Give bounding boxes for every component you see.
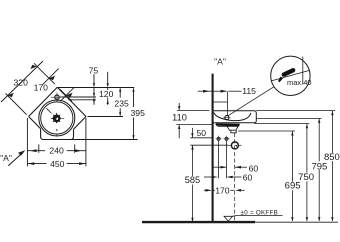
120 dim vertical [107, 72, 109, 86]
waste circle side ticks [228, 144, 231, 146]
235 dim vertical [119, 89, 121, 98]
svg-text:120: 120 [99, 89, 114, 99]
240 dim line [27, 150, 45, 152]
left ext: waste level 585 [190, 144, 228, 146]
tap hole (front) [225, 116, 229, 120]
320 dimension line [1, 61, 43, 102]
svg-text:320: 320 [14, 78, 29, 88]
basin side edge lower-right [74, 117, 87, 130]
floor line thin [255, 221, 338, 223]
svg-text:585: 585 [185, 175, 200, 185]
centerline tick below bowl [56, 134, 58, 137]
floor datum symbol [224, 216, 233, 221]
320 arrow NE [30, 65, 36, 69]
tap ext vertical [226, 91, 228, 115]
svg-text:240: 240 [49, 146, 64, 156]
wall line [212, 74, 214, 222]
850 ext line [256, 110, 335, 112]
leader to detail [228, 87, 274, 116]
rear deck line [214, 101, 228, 103]
fixing hole right [224, 136, 230, 142]
695 arrows [291, 131, 293, 135]
svg-text:50: 50 [197, 128, 207, 138]
basin rear edge left (wall edge, diamond top-left) [29, 87, 58, 116]
drain outlet (plan) [46, 108, 64, 123]
row2 60 [204, 176, 212, 178]
695 ext line [238, 130, 295, 132]
bowl-top level line [69, 99, 97, 101]
overflow dot [56, 129, 58, 131]
395 arrows [132, 88, 134, 92]
svg-text:75: 75 [89, 65, 99, 75]
svg-text:60: 60 [243, 172, 253, 182]
floor line thick [142, 221, 255, 223]
795 arrows [318, 119, 320, 123]
view arrow A [8, 153, 22, 166]
drain cup [227, 126, 238, 130]
120 arrows [107, 83, 109, 87]
left vertex ext vertical [26, 118, 28, 166]
75 arrows [93, 83, 95, 87]
450 arrows [28, 162, 35, 165]
235 arrows [119, 88, 121, 92]
115 arrows [203, 90, 209, 93]
basin body profile [214, 111, 257, 123]
795 ext line [256, 117, 321, 119]
long NW-SE ext through corner [34, 63, 55, 84]
850 arrows [331, 111, 333, 115]
row3 170 [204, 189, 207, 191]
115 dim [198, 90, 212, 92]
bowl outer circle [39, 100, 75, 136]
black seal wedge (magnified) [278, 67, 296, 82]
170 dimension line [42, 69, 59, 86]
arrowheads plan corner [8, 65, 73, 98]
bowl-top diagonal ext [61, 88, 75, 102]
drain flange line [218, 125, 240, 127]
svg-text:795: 795 [311, 161, 327, 172]
bowl inner circle [41, 102, 73, 134]
front edge ext line [44, 139, 138, 141]
vertical line in detail [302, 57, 304, 84]
320 arrow SW [8, 93, 14, 97]
395 dim vertical [133, 89, 135, 108]
row1 60 arrows [221, 166, 227, 169]
svg-text:450: 450 [50, 159, 65, 169]
svg-text:"A": "A" [214, 56, 226, 66]
row1 60 [214, 166, 227, 168]
left ext: holes level [190, 137, 213, 139]
bowl-top ext arrow SW [66, 93, 72, 97]
right vertex ext line [88, 116, 124, 118]
left ext: basin bottom [176, 124, 213, 126]
tap hole (plan) [55, 95, 59, 99]
svg-text:235: 235 [114, 98, 129, 108]
svg-text:170: 170 [34, 82, 49, 92]
fixing hole left [216, 136, 222, 142]
svg-text:max.40: max.40 [287, 78, 312, 87]
svg-text:"A": "A" [0, 153, 12, 163]
deck level ext left [177, 109, 209, 111]
svg-text:750: 750 [298, 172, 314, 183]
170 arrow SW [49, 76, 55, 80]
585 dim vertical [192, 145, 194, 176]
line A from top vertex [57, 87, 134, 89]
50 dim vertical [191, 128, 193, 137]
585 arrows [191, 145, 193, 149]
svg-text:395: 395 [131, 108, 146, 118]
waste centerline dashed [234, 133, 236, 221]
110 dim vertical [178, 103, 180, 110]
row2 60 arrows [212, 176, 218, 179]
svg-text:110: 110 [172, 112, 187, 122]
basin side edge lower-left [29, 117, 41, 129]
svg-text:115: 115 [242, 86, 256, 96]
row3 170 arrows [206, 189, 212, 192]
svg-text:±0 = OKFFB: ±0 = OKFFB [241, 209, 279, 216]
bowl section curve [214, 113, 251, 121]
basin front outline (rounded square front) [41, 129, 74, 140]
110 arrows [178, 106, 180, 110]
750 arrows [306, 124, 308, 128]
75 dim vertical [93, 74, 95, 86]
450 dim line [27, 163, 46, 165]
svg-text:850: 850 [324, 152, 340, 163]
slope line in detail [271, 70, 310, 81]
right column dim verticals [291, 131, 293, 181]
right vertex ext vertical [85, 118, 87, 166]
basin rear edge right (diamond top-right) [57, 87, 86, 116]
svg-text:170: 170 [215, 186, 230, 196]
50 arrows [191, 133, 193, 137]
black seal bar under basin [216, 123, 240, 126]
ext line left vertex [6, 94, 27, 115]
750 ext line [254, 122, 309, 124]
240 ext ticks [38, 144, 40, 152]
drain stub [231, 130, 236, 133]
tap hole level line [60, 96, 96, 98]
240 arrows [30, 149, 37, 152]
hole ext verticals [218, 141, 220, 178]
waste pipe circle [231, 142, 238, 149]
